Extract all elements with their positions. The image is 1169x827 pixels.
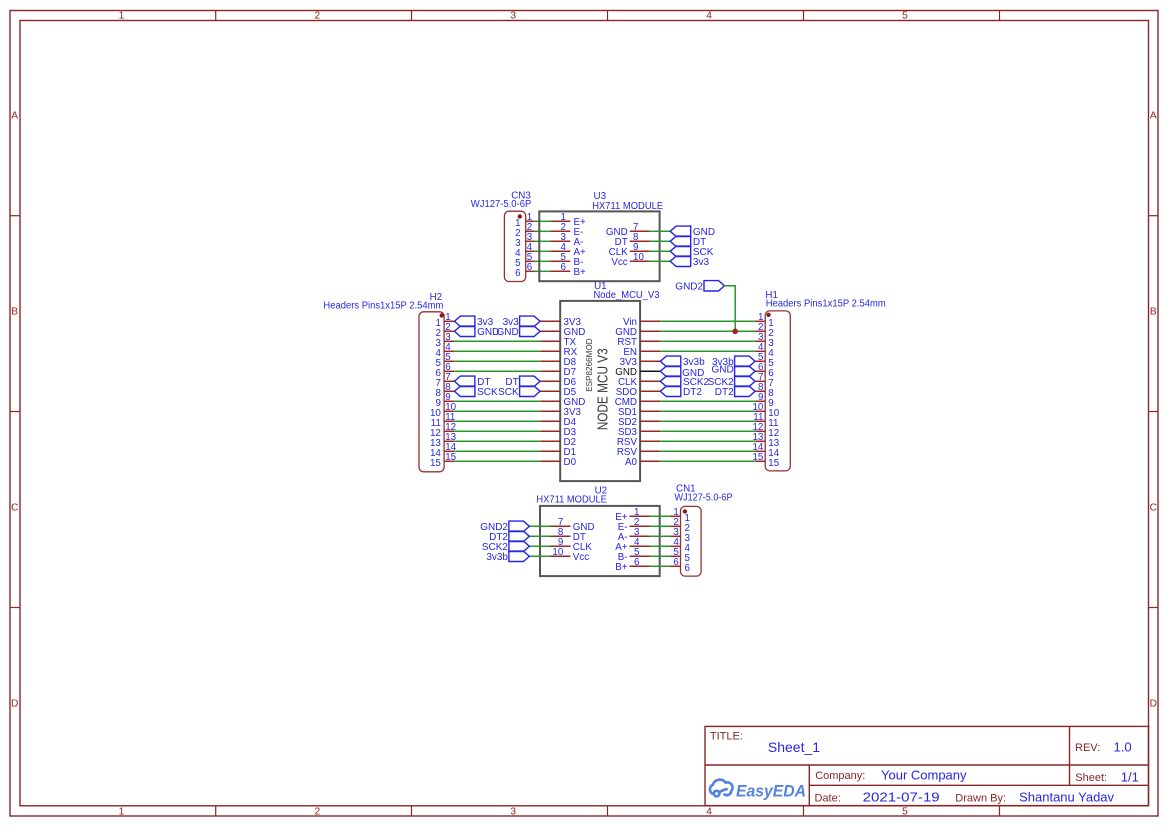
svg-text:6: 6 <box>527 262 533 273</box>
H1 pin-1 origin dot <box>766 313 770 317</box>
svg-text:B: B <box>1150 306 1157 317</box>
svg-text:REV:: REV: <box>1075 742 1100 754</box>
svg-text:2: 2 <box>314 807 320 818</box>
H1 pins 1-15 <box>752 312 779 469</box>
header H2 outline <box>419 312 444 472</box>
svg-text:1: 1 <box>119 10 125 21</box>
svg-text:WJ127-5.0-6P: WJ127-5.0-6P <box>471 199 532 210</box>
column tick marks top <box>216 11 1000 21</box>
svg-text:Company:: Company: <box>815 770 865 782</box>
column numbers bottom <box>119 807 909 818</box>
EasyEDA logo cloud icon <box>710 780 733 797</box>
net flag DT2 on U1 SDO pin <box>660 386 681 396</box>
svg-text:10: 10 <box>633 252 644 263</box>
net flag 3v3b on U2 <box>509 551 530 561</box>
net flag SCK <box>670 246 691 256</box>
svg-text:6: 6 <box>561 262 567 273</box>
net flag GND2 on U2 <box>509 521 530 531</box>
U3 right pins 7-10 GND DT CLK Vcc <box>606 222 650 268</box>
column tick marks bottom <box>216 806 1000 816</box>
net flag DT on H2 pin7 <box>454 376 475 386</box>
svg-text:4: 4 <box>706 807 712 818</box>
svg-text:5: 5 <box>902 10 908 21</box>
svg-text:TITLE:: TITLE: <box>710 730 743 742</box>
svg-text:A: A <box>11 111 18 122</box>
net flag SCK on H2 pin8 <box>454 386 475 396</box>
U2 right pins 1-6 <box>615 507 649 573</box>
net flag SCK on U1 D5 pin <box>520 386 541 396</box>
connector CN1 outline WJ127-5.0-6P <box>681 506 702 576</box>
wires U2 left flags <box>529 526 550 556</box>
title block divider under title row <box>705 764 1149 766</box>
connector CN3 outline WJ127-5.0-6P <box>504 211 525 281</box>
net flag DT on U1 D6 pin <box>520 376 541 386</box>
wires U2 to CN1 <box>650 516 671 566</box>
net flag GND on H1 pin6 <box>735 366 756 376</box>
net flag 3v3 on H2 pin1 <box>454 316 475 326</box>
net flag GND on U1 GND pin (black) <box>660 366 681 376</box>
svg-text:A0: A0 <box>625 457 638 468</box>
svg-text:6: 6 <box>634 557 640 568</box>
svg-text:1/1: 1/1 <box>1121 769 1139 784</box>
net flag GND on H2 pin2 <box>454 326 475 336</box>
svg-text:DT2: DT2 <box>715 387 734 398</box>
svg-text:15: 15 <box>768 458 779 469</box>
svg-text:Drawn By:: Drawn By: <box>955 792 1006 804</box>
net flag DT2 on U2 <box>509 531 530 541</box>
CN3 pins 1-6 <box>515 212 534 279</box>
svg-text:B+: B+ <box>615 562 628 573</box>
U3 left pins 1-6 E+..B+ <box>550 212 586 278</box>
wires U1 to H1 <box>660 321 755 461</box>
module U2 HX711 box <box>540 506 660 576</box>
svg-text:SCK: SCK <box>498 387 519 398</box>
wires H2 to U1 <box>454 341 540 461</box>
svg-text:6: 6 <box>685 563 691 574</box>
wire GND2 to H1 pin2 net <box>725 286 736 332</box>
svg-text:3: 3 <box>510 807 516 818</box>
header H1 outline <box>765 311 790 471</box>
svg-text:D: D <box>11 698 18 709</box>
svg-text:3v3b: 3v3b <box>683 357 705 368</box>
title block vertical divider left of REV/Sheet <box>1069 726 1071 785</box>
svg-text:D0: D0 <box>564 457 577 468</box>
svg-text:Node_MCU_V3: Node_MCU_V3 <box>594 290 661 301</box>
op-amp module U3 box <box>539 211 659 281</box>
svg-text:Vcc: Vcc <box>611 257 627 268</box>
svg-text:GND: GND <box>711 365 733 376</box>
net flag GND2 <box>704 281 725 291</box>
svg-text:ESP8266MOD: ESP8266MOD <box>584 338 594 392</box>
net flag SCK2 on U1 CLK pin <box>660 376 681 386</box>
net flag DT2 on H1 pin8 <box>735 386 756 396</box>
row letters right <box>1150 111 1157 710</box>
CN1 pin-1 origin dot <box>683 509 687 513</box>
svg-text:C: C <box>1150 502 1157 513</box>
U1 right pins <box>615 317 660 468</box>
svg-text:Shantanu Yadav: Shantanu Yadav <box>1019 790 1114 805</box>
svg-text:15: 15 <box>430 458 441 469</box>
junction dot on GND net <box>732 329 738 335</box>
row tick marks left <box>10 216 20 608</box>
svg-text:EasyEDA: EasyEDA <box>736 782 806 800</box>
svg-text:HX711 MODULE: HX711 MODULE <box>592 201 663 212</box>
title block divider under company row <box>809 784 1148 786</box>
svg-text:B+: B+ <box>574 267 587 278</box>
net flag DT <box>670 236 691 246</box>
wires CN3 to U3 <box>535 221 551 271</box>
svg-text:GND: GND <box>496 327 518 338</box>
svg-text:5: 5 <box>902 807 908 818</box>
net flag SCK2 on H1 pin7 <box>735 376 756 386</box>
net flag 3v3 <box>670 256 691 266</box>
svg-text:6: 6 <box>515 268 521 279</box>
svg-text:HX711 MODULE: HX711 MODULE <box>536 494 607 505</box>
svg-text:Headers Pins1x15P 2.54mm: Headers Pins1x15P 2.54mm <box>766 299 886 310</box>
svg-text:1: 1 <box>119 807 125 818</box>
svg-text:C: C <box>11 502 18 513</box>
title block outline <box>705 726 1149 805</box>
svg-text:Sheet_1: Sheet_1 <box>768 739 820 755</box>
net flag 3v3b on H1 pin5 <box>735 356 756 366</box>
CN3 pin-1 origin dot <box>518 214 522 218</box>
svg-text:A: A <box>1150 111 1157 122</box>
net flag SCK2 on U2 <box>509 541 530 551</box>
svg-text:GND2: GND2 <box>675 281 703 292</box>
svg-text:Your Company: Your Company <box>881 767 967 782</box>
svg-text:3: 3 <box>510 10 516 21</box>
column numbers top <box>119 10 909 21</box>
svg-text:3v3: 3v3 <box>693 257 710 268</box>
H2 pins 1-15 <box>430 312 457 469</box>
row tick marks right <box>1149 216 1159 608</box>
title block vertical divider right of logo <box>808 765 810 806</box>
svg-text:WJ127-5.0-6P: WJ127-5.0-6P <box>675 492 733 503</box>
svg-text:Date:: Date: <box>815 792 841 804</box>
svg-text:SCK: SCK <box>477 387 498 398</box>
CN1 pins 1-6 <box>670 507 690 574</box>
svg-text:2021-07-19: 2021-07-19 <box>863 790 940 805</box>
svg-text:B: B <box>11 306 18 317</box>
mcu U1 Node_MCU_V3 box <box>560 301 640 481</box>
net flag GND <box>670 226 691 236</box>
svg-text:1.0: 1.0 <box>1114 739 1132 754</box>
net flag 3v3b on U1 3V3 pin <box>660 356 681 366</box>
svg-text:2: 2 <box>314 10 320 21</box>
svg-text:DT2: DT2 <box>683 387 702 398</box>
svg-text:NODE MCU V3: NODE MCU V3 <box>595 348 612 430</box>
svg-text:3v3b: 3v3b <box>486 552 508 563</box>
svg-text:Vcc: Vcc <box>573 552 589 563</box>
svg-text:Headers Pins1x15P 2.54mm: Headers Pins1x15P 2.54mm <box>323 300 443 311</box>
svg-text:Sheet:: Sheet: <box>1075 772 1107 784</box>
net flag GND on U1 GND pin <box>520 326 541 336</box>
svg-text:10: 10 <box>552 547 563 558</box>
net flag 3v3 on U1 3V3 pin <box>520 316 541 326</box>
row letters left <box>11 111 18 710</box>
U2 left pins 7-10 <box>551 517 595 563</box>
wires U3 to net flags <box>650 231 670 261</box>
svg-text:D: D <box>1150 698 1157 709</box>
svg-text:4: 4 <box>706 10 712 21</box>
U1 left pins <box>540 317 585 468</box>
H2 pin-1 origin dot <box>440 313 444 317</box>
svg-text:6: 6 <box>673 557 679 568</box>
